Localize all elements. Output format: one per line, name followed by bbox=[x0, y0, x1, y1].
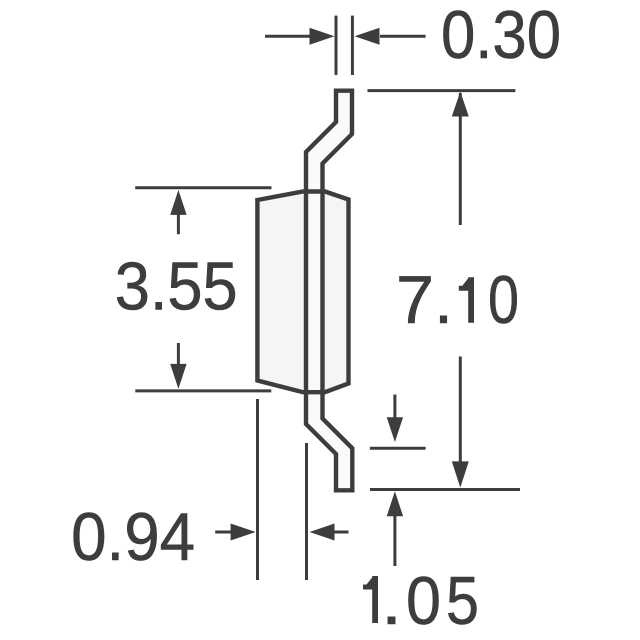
svg-text:7.: 7. bbox=[396, 262, 453, 338]
svg-text:0: 0 bbox=[406, 563, 441, 639]
svg-text:.: . bbox=[381, 563, 402, 639]
svg-text:0.94: 0.94 bbox=[71, 499, 195, 575]
svg-text:0.30: 0.30 bbox=[441, 0, 561, 73]
svg-text:0: 0 bbox=[488, 262, 519, 338]
svg-text:3.55: 3.55 bbox=[115, 249, 238, 325]
svg-text:5: 5 bbox=[446, 563, 479, 639]
